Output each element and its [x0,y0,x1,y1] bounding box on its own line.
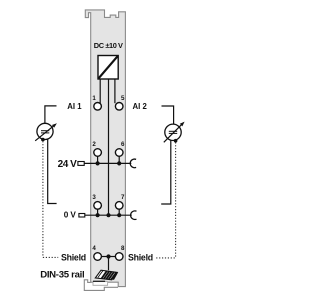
shield dotted wire right vertical [175,142,177,258]
wire G1 to 0V left [48,139,57,204]
terminal 8 [115,253,123,261]
terminal 2 [94,149,102,157]
terminal 5 [115,103,123,111]
0V jumper hook contact [131,211,137,220]
DIN-35 rail profile [84,280,118,291]
svg-text:7: 7 [121,194,125,201]
svg-text:8: 8 [121,245,125,252]
stub terminal 3 to 0V bus [97,209,99,215]
svg-text:Shield: Shield [128,252,153,262]
24V jumper hook contact [130,159,136,168]
junction dot 24V right [117,161,121,165]
junction dot 0V left [96,213,100,217]
svg-text:2: 2 [92,141,96,148]
wire terminal 4 to terminal 8 [102,256,115,258]
wire G2 to 0V right [161,140,171,204]
svg-text:DIN-35 rail: DIN-35 rail [40,270,84,281]
svg-text:AI 1: AI 1 [67,102,82,111]
shield dotted wire right horizontal [156,257,175,259]
stub terminal 6 to 24V bus [118,156,120,163]
wire shield to rail contact [108,257,110,271]
stub terminal 2 to 24V bus [97,156,99,163]
junction dot 24V left [96,161,100,165]
terminal 6 [115,149,123,157]
notch dark edge [93,280,105,282]
svg-text:1: 1 [92,95,96,102]
rail notch [93,282,108,286]
adjustable voltage source G1 [35,123,57,141]
terminal 7 [115,202,123,210]
svg-text:6: 6 [121,141,125,148]
shield dotted wire left horizontal [43,256,58,258]
wire U1 to terminal 1 [99,79,101,103]
A/D converter U1 [98,56,118,80]
svg-text:4: 4 [92,245,96,252]
junction dot 0V center [106,213,110,217]
24V blade contact square [78,162,84,166]
adjustable voltage source G2 [164,122,185,143]
terminal 4 [94,253,102,261]
shield dotted wire left vertical [42,141,44,257]
svg-text:DC ±10 V: DC ±10 V [94,41,123,50]
wire 0V bus [85,214,132,216]
wire AI2 to source [162,106,174,124]
terminal 3 [94,202,102,210]
junction dot shield [106,254,110,258]
wire U1 to terminal 5 [114,79,116,103]
svg-text:5: 5 [121,95,125,102]
junction dot G2 shield tap [174,139,178,143]
stub terminal 7 to 0V bus [118,209,120,215]
svg-text:0 V: 0 V [64,211,77,220]
svg-text:3: 3 [92,194,96,201]
0V blade contact square [79,214,85,218]
terminal 1 [94,103,102,111]
wire 24V bus [84,162,131,164]
wire AI1 to source [45,106,57,123]
junction dot 0V right [117,213,121,217]
svg-text:AI 2: AI 2 [133,102,148,111]
rail contact symbol (hatched) [95,270,117,280]
svg-text:Shield: Shield [61,252,86,262]
junction dot G1 shield tap [41,138,45,142]
module body (bus terminal housing) [85,10,125,287]
wire U1 to 0V bus (center) [108,79,110,215]
svg-text:24 V: 24 V [58,159,78,170]
